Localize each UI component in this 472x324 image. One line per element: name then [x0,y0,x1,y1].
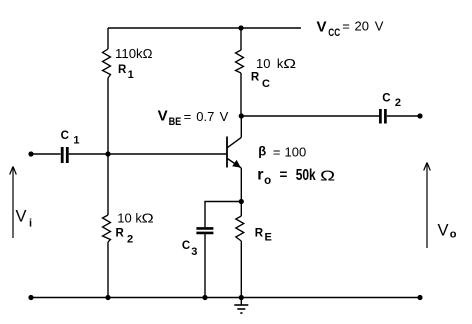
svg-text:=: = [273,144,281,159]
wire C3 to ground rail [204,234,206,298]
label VBE = 0.7 V [158,108,229,129]
node input terminal [28,151,33,156]
node bottom RE junction [239,295,244,300]
svg-text:2: 2 [127,234,133,246]
wire left vertical top (VCC to R1) [107,28,109,49]
wire collector vertical [240,116,242,137]
label VCC = 20 V [317,18,384,39]
wire C2 to output terminal [387,115,420,117]
capacitor C2 [380,93,401,124]
wire RC to collector node [240,73,242,116]
svg-text:100: 100 [285,144,307,159]
svg-text:1: 1 [73,135,79,147]
transistor Q1 [227,137,241,169]
node bottom right terminal [417,295,422,300]
svg-text:50k: 50k [296,165,316,183]
svg-text:E: E [265,232,272,244]
node bottom R2 junction [105,295,110,300]
svg-text:=: = [280,167,288,182]
svg-text:=: = [184,109,192,124]
svg-text:=: = [342,18,350,33]
svg-text:CC: CC [328,27,340,39]
svg-text:0.7: 0.7 [196,109,214,124]
svg-text:20: 20 [355,18,369,33]
svg-text:110kΩ: 110kΩ [115,46,153,61]
wire VCC to RC [240,28,242,50]
resistor RE [236,216,272,244]
label ro = 50k ohm [257,165,335,187]
svg-text:V: V [220,109,229,124]
svg-text:o: o [450,229,457,241]
svg-text:R: R [116,228,125,240]
node collector junction [239,113,244,118]
node bottom C3 junction [202,295,207,300]
svg-text:V: V [438,222,449,240]
capacitor C3 [182,228,214,258]
label Vo [438,222,457,241]
svg-text:R: R [118,64,127,76]
resistor R1 [103,46,153,81]
svg-text:C: C [262,78,270,90]
wire emitter vertical [240,168,242,202]
node base junction [105,151,110,156]
svg-text:r: r [257,167,263,184]
arrow Vo output [424,163,431,249]
wire R2 to ground rail [107,242,109,298]
wire C1 to base [69,153,227,155]
wire collector to C2 [241,115,379,117]
svg-text:C: C [61,130,69,142]
wire input to C1 [31,153,61,155]
arrow Vi input [10,167,17,239]
svg-text:C: C [182,240,190,252]
wire R1 to base node [107,78,109,215]
svg-text:β: β [258,144,266,159]
svg-text:V: V [375,18,384,33]
wire emitter to RE [240,202,242,217]
svg-text:C: C [382,93,390,105]
svg-text:10: 10 [256,56,270,71]
node bottom left terminal [28,295,33,300]
node output terminal [417,113,422,118]
capacitor C1 [61,130,80,163]
resistor RC [236,50,297,90]
svg-text:Ω: Ω [320,167,335,184]
svg-text:Ω: Ω [283,57,296,72]
svg-text:2: 2 [395,97,401,109]
node VCC junction [238,25,243,30]
svg-text:V: V [158,108,168,125]
node VCC top rail wire [108,27,301,29]
ground [234,298,248,314]
wire bottom ground rail [31,297,420,299]
wire emitter node to C3 branch [205,202,241,228]
svg-text:V: V [16,208,27,226]
svg-text:BE: BE [169,116,182,128]
resistor R2 [103,211,154,246]
svg-text:o: o [264,175,271,187]
svg-text:1: 1 [128,69,134,81]
label beta = 100 [258,144,306,160]
svg-text:i: i [29,218,32,230]
svg-text:R: R [255,227,264,239]
svg-text:Ω: Ω [142,212,154,226]
node emitter junction [239,199,244,204]
svg-text:3: 3 [191,246,197,258]
svg-text:R: R [251,72,260,84]
svg-text:10: 10 [117,211,131,226]
svg-text:V: V [317,18,327,35]
wire RE to ground rail [240,241,242,298]
label Vi [16,208,33,230]
